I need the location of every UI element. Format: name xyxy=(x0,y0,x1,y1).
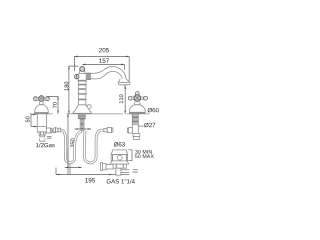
pop-up rod knob xyxy=(86,105,92,109)
dim 205 line xyxy=(74,56,129,81)
spout ball xyxy=(80,66,85,71)
drain washer xyxy=(110,161,129,164)
dim 350 line over hose xyxy=(67,148,69,167)
side screw circle xyxy=(74,74,79,79)
dim 350 line xyxy=(56,114,82,175)
dim 195 text xyxy=(85,178,95,182)
right hose fitting xyxy=(104,127,113,132)
left valve tail xyxy=(39,132,51,141)
left valve bell xyxy=(35,105,49,114)
right valve shank xyxy=(132,114,138,134)
dim 157 line xyxy=(82,64,124,70)
right valve handle xyxy=(128,92,147,102)
deck line right xyxy=(127,113,150,115)
label O60 xyxy=(148,108,159,113)
left valve neck xyxy=(39,101,43,106)
deck line center xyxy=(66,113,122,115)
spout tube xyxy=(86,66,126,79)
dim 110 line xyxy=(124,86,126,114)
left valve hose port circle xyxy=(53,128,57,132)
dim 50 line xyxy=(31,114,37,128)
label 50 MAX text xyxy=(135,154,154,158)
drain locknut xyxy=(113,164,126,168)
label 30 MIN 50 MAX bracket xyxy=(128,150,132,161)
dim 180 text xyxy=(64,82,68,91)
dim 195 line xyxy=(56,174,116,176)
right valve tail rings xyxy=(133,133,140,139)
left valve elbow xyxy=(46,128,52,133)
label O63 xyxy=(114,142,125,147)
label 30 MIN text xyxy=(135,150,152,154)
dim 110 text xyxy=(119,95,123,104)
label 1/2Gas xyxy=(36,143,55,147)
hose crossbar xyxy=(75,128,91,130)
dim 350 text xyxy=(70,139,74,148)
label GAS 1"1/4 xyxy=(107,179,135,183)
left valve body below deck xyxy=(37,114,46,132)
spout column xyxy=(73,71,92,113)
drain flange xyxy=(111,150,127,161)
dim 70 text xyxy=(53,102,57,108)
right valve bell xyxy=(129,105,145,113)
left hose fitting xyxy=(53,128,60,133)
left hose xyxy=(61,130,81,163)
right valve neck xyxy=(134,101,141,105)
dim 157 text xyxy=(99,58,109,62)
label O27 xyxy=(139,123,156,128)
spout outlet xyxy=(118,79,130,86)
dim 50 text xyxy=(26,117,30,123)
dim 180 line xyxy=(68,66,78,114)
dim 205 text xyxy=(99,48,109,52)
dim 70 line xyxy=(48,96,59,113)
right valve elbow xyxy=(127,128,132,134)
right hose xyxy=(85,130,104,163)
deck line left xyxy=(30,113,53,115)
drain tailpipe xyxy=(116,168,138,175)
overflow elbow xyxy=(100,163,113,171)
center shank threads xyxy=(78,114,85,131)
left valve handle xyxy=(34,96,50,102)
